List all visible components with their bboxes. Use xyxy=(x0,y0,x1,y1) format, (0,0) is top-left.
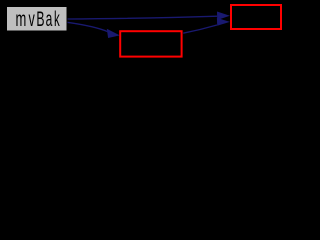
node mvBak (grey box) xyxy=(7,7,68,32)
wire: edge mvBak to bottom node xyxy=(66,22,108,32)
background xyxy=(0,0,287,63)
svg-text:m: m xyxy=(16,7,27,31)
node: top-right red box xyxy=(231,5,281,29)
node: bottom red box xyxy=(120,31,181,56)
svg-text:a: a xyxy=(46,6,53,31)
label mvBak xyxy=(16,6,61,31)
arrowhead: edge mvBak to top-right node xyxy=(217,12,230,21)
svg-text:B: B xyxy=(36,6,44,31)
svg-text:k: k xyxy=(54,7,60,31)
arrowhead: edge bottom node to top-right node xyxy=(217,18,230,26)
wire: edge bottom node to top-right node xyxy=(183,25,217,33)
wire: edge mvBak to top-right node xyxy=(66,16,217,19)
arrowhead: edge mvBak to bottom node xyxy=(107,29,120,38)
svg-text:v: v xyxy=(29,7,35,31)
